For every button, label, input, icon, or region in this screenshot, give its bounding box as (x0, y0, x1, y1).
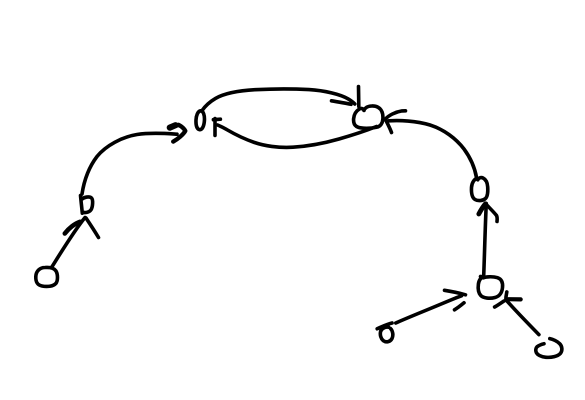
node G sigma loop (380, 327, 393, 342)
arrow B to C head (170, 125, 186, 142)
arrow H to F head vertical tip stroke (506, 292, 507, 301)
arrow H to F head horizontal barb (509, 297, 521, 301)
arrow F to E head left barb (479, 204, 486, 214)
arrow B to C head curl fill (170, 125, 176, 127)
arrow E to D head lower barb (386, 120, 392, 133)
arrow A to B head left barb (65, 222, 80, 234)
node F blob (478, 276, 502, 298)
arrow G to F head lower barb (455, 303, 465, 310)
node G sigma bar (377, 323, 392, 329)
arrow A to B head right barb (86, 218, 99, 238)
arrow A to B shaft (52, 218, 86, 268)
node D blob (354, 106, 383, 128)
arrow G to F head upper barb (445, 290, 466, 295)
arrow D to C hook vertical (213, 119, 217, 136)
arrow H to F head lower barb (495, 301, 504, 307)
arrow H to F shaft (507, 301, 539, 334)
arrow D to C hook horizontal (213, 117, 220, 121)
arrow C to D head vertical tick (357, 87, 361, 107)
arrow F to E shaft vertical (484, 204, 487, 276)
arrow C to D head barb (332, 101, 352, 105)
arrow F to E head right barb (486, 204, 497, 222)
node B small b-loop (81, 196, 93, 214)
arrow E to D head upper barb (386, 111, 406, 119)
arrow E to D shaft curve (389, 121, 477, 178)
arrow B to C shaft arc (82, 133, 177, 194)
arrow G to F shaft (396, 296, 462, 323)
node H open loop left arm (536, 339, 562, 358)
arrow D to C bottom arc shaft (218, 125, 377, 147)
node E blob (471, 178, 487, 201)
node C narrow oval (196, 111, 204, 130)
node A bottom-left circle (36, 267, 58, 286)
arrow C to D top arc shaft (202, 89, 355, 111)
